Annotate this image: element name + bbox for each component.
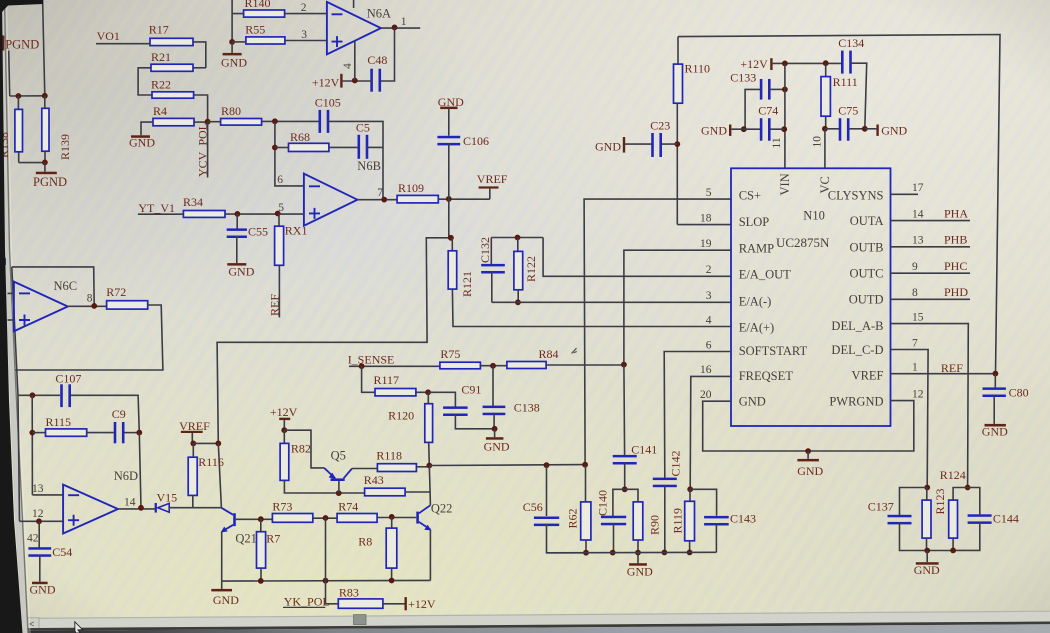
junction rail YK [323, 578, 329, 584]
power +12V at R83 [405, 597, 407, 610]
wire RAMP node down to C141 [623, 365, 626, 456]
junction N6C output [91, 303, 97, 309]
resistor R119 [689, 489, 691, 501]
svg-text:R124: R124 [940, 468, 966, 482]
wire R121 to pin4 [452, 289, 731, 326]
mouse cursor [75, 622, 83, 633]
wire R118 right [416, 466, 429, 468]
resistor R139b (right) [44, 96, 46, 163]
resistor R109 [397, 195, 438, 203]
svg-text:PHB: PHB [944, 233, 967, 247]
junction R117 tap [359, 363, 365, 369]
svg-text:R62: R62 [566, 508, 580, 528]
junction C54 top [36, 518, 42, 524]
wire R80 node down to R68 and pin6 [275, 121, 304, 186]
capacitor C9 [114, 422, 117, 443]
wire V15 to riser [169, 507, 221, 509]
svg-text:3: 3 [706, 290, 712, 302]
svg-text:E/A(+): E/A(+) [739, 320, 775, 334]
wire R110 vertical [676, 103, 678, 225]
wire C106 to R109 node [448, 143, 450, 199]
transistor Q22 [416, 512, 419, 524]
svg-text:C144: C144 [993, 512, 1019, 526]
capacitor C140 [613, 489, 625, 516]
svg-text:R43: R43 [364, 473, 384, 487]
panel icon 1 [1, 258, 6, 265]
svg-text:I_SENSE: I_SENSE [348, 352, 395, 366]
junction N6D output [138, 505, 144, 511]
svg-text:GND: GND [797, 464, 823, 478]
wire Q21 base [236, 518, 273, 520]
svg-text:N6C: N6C [54, 279, 78, 293]
wire C91 bottom to C138 node [455, 414, 494, 429]
svg-text:R123: R123 [933, 488, 947, 514]
wire C134 right down [850, 63, 867, 129]
capacitor C55 [236, 214, 238, 229]
svg-text:PHC: PHC [944, 259, 967, 273]
junction R115 left [29, 430, 35, 436]
capacitor C133 [760, 79, 763, 100]
wire C133 left leg [745, 89, 761, 129]
wire C142 bottom [664, 485, 666, 553]
resistor R111 [825, 63, 827, 129]
svg-text:R117: R117 [374, 373, 400, 387]
wire C141 bottom [624, 462, 626, 489]
power port PGND top [2, 36, 4, 51]
wire R80 to C105 [262, 120, 321, 122]
svg-text:R83: R83 [339, 586, 359, 600]
ground GND filter rail [637, 553, 639, 564]
junction rail R8 [389, 578, 395, 584]
junction RX1 top [275, 211, 281, 217]
junction C138 bottom [492, 426, 498, 432]
capacitor C105 [319, 110, 322, 133]
ground GND below IC [807, 451, 809, 459]
svg-text:GND: GND [914, 563, 940, 577]
resistor R83 [338, 599, 383, 608]
wire C132 top rail [491, 237, 543, 239]
junction rail R119 [687, 550, 693, 556]
resistor R73 [272, 514, 312, 523]
svg-text:REF: REF [267, 294, 281, 316]
svg-text:R72: R72 [106, 285, 126, 299]
junction C138 top [490, 363, 496, 369]
capacitor C143 [690, 489, 716, 515]
wire pin15 DEL_A-B route [891, 324, 969, 488]
wire Q21 emitter down [221, 532, 223, 581]
svg-text:C75: C75 [838, 104, 858, 118]
resistor R17 [150, 38, 193, 45]
svg-text:14: 14 [124, 496, 136, 508]
wire sense rail [429, 464, 585, 467]
left panel strip [2, 0, 29, 633]
svg-text:C74: C74 [758, 104, 778, 118]
capacitor C91 [428, 392, 455, 407]
svg-text:YK_POL: YK_POL [284, 594, 330, 608]
wire R43 right to Q22 riser [405, 491, 430, 493]
svg-text:R17: R17 [149, 22, 169, 36]
svg-text:SLOP: SLOP [739, 215, 770, 229]
svg-text:RX1: RX1 [285, 223, 308, 237]
junction Q21 base node [258, 516, 264, 522]
wire R7 bottom [260, 568, 262, 581]
svg-text:R68: R68 [290, 130, 310, 144]
wire pin14 OUTA [891, 220, 971, 222]
wire R55 to pin3 [285, 40, 327, 42]
capacitor C54 [38, 521, 40, 547]
svg-text:17: 17 [912, 182, 924, 194]
wire Q5 collector to R118 [352, 468, 377, 470]
svg-text:9: 9 [912, 261, 918, 273]
wire top stub to R140 [232, 0, 244, 42]
wire pin8 OUTD [891, 298, 971, 300]
wire R82 bottom to base rail [284, 480, 364, 493]
svg-text:12: 12 [912, 388, 924, 400]
power +12V at N6A [340, 74, 342, 88]
capacitor C137 [900, 488, 928, 516]
resistor R123 [926, 488, 928, 501]
resistor R121 [451, 238, 453, 251]
wire R17 right down to R21 [193, 42, 206, 68]
svg-text:PGND: PGND [33, 175, 67, 189]
wire C144 bottom [953, 522, 980, 551]
junction rail C140 [610, 550, 616, 556]
svg-text:C48: C48 [367, 53, 387, 67]
svg-text:1: 1 [401, 16, 407, 28]
capacitor C134 [841, 51, 844, 74]
svg-text:C9: C9 [112, 407, 126, 421]
junction R119 top [687, 486, 693, 492]
svg-text:8: 8 [87, 292, 93, 304]
svg-text:C143: C143 [730, 511, 756, 525]
wire top loop [678, 35, 1000, 374]
wire R68 to C5 [329, 146, 359, 148]
svg-text:PGND: PGND [5, 38, 39, 52]
wire pin13 OUTB [891, 246, 971, 248]
svg-text:N6B: N6B [357, 159, 381, 173]
wire C140 bottom [613, 523, 615, 553]
wire pin9 OUTC [891, 272, 971, 274]
resistor R21 [151, 64, 193, 71]
svg-text:R119: R119 [671, 508, 685, 534]
panel icon 2 [1, 290, 6, 297]
junction R121 top [448, 235, 454, 241]
wire R123-R124 rail [927, 550, 953, 552]
ground GND left of C74 [729, 125, 731, 136]
ground GND at C80 [993, 395, 995, 424]
junction IC ground [805, 448, 811, 454]
resistor R74 [337, 514, 377, 523]
wire R120 bottom [428, 442, 431, 465]
junction R139a top [16, 93, 22, 99]
wire top rail to pin2 [543, 238, 731, 277]
junction N6B output [381, 197, 387, 203]
svg-text:R111: R111 [833, 75, 858, 89]
svg-text:R115: R115 [46, 415, 72, 429]
svg-text:OUTC: OUTC [849, 266, 883, 280]
junction C55 top [235, 211, 241, 217]
wire riser to Q21 collector [218, 443, 221, 507]
svg-text:C23: C23 [650, 119, 670, 133]
svg-text:GND: GND [739, 394, 766, 408]
wire bottom rail to pin3 [492, 301, 731, 303]
resistor R122 [517, 238, 519, 252]
svg-text:6: 6 [706, 339, 712, 351]
wire R117 to R120 node [416, 391, 428, 393]
wire R119 bottom [689, 541, 691, 553]
wire emitter rail [222, 579, 431, 582]
wire +12V to C134 [773, 62, 844, 64]
capacitor C74 [731, 128, 784, 130]
wire C137 bottom [900, 522, 928, 551]
wire R72 right down-left box [15, 305, 163, 370]
wire C56 bottom [547, 524, 587, 553]
resistor R75 [440, 362, 481, 369]
wire R124 bottom [952, 538, 954, 550]
svg-text:C137: C137 [868, 500, 894, 514]
transistor Q21 [233, 513, 236, 526]
wire pin17 stub [891, 193, 919, 195]
junction +12V a [782, 61, 788, 67]
svg-text:GND: GND [30, 583, 56, 597]
svg-text:R82: R82 [291, 441, 311, 455]
wire N6C feedback loop [12, 267, 94, 306]
svg-text:FREQSET: FREQSET [739, 369, 794, 383]
svg-text:2: 2 [706, 264, 712, 276]
svg-text:RAMP: RAMP [739, 242, 774, 256]
panel icon 3 [2, 318, 7, 324]
wire I_SENSE to R75 [349, 365, 440, 367]
resistor R80 [221, 119, 262, 126]
svg-text:12: 12 [32, 508, 44, 520]
svg-text:11: 11 [771, 137, 783, 148]
svg-text:14: 14 [912, 208, 924, 220]
bezel top-left wedge [0, 0, 43, 12]
junction R120 top [425, 389, 431, 395]
svg-text:VIN: VIN [778, 173, 792, 195]
op-amp N6D [63, 485, 118, 534]
svg-text:R75: R75 [440, 347, 460, 361]
ground PGND bottom [36, 172, 57, 175]
svg-text:20: 20 [700, 389, 712, 401]
junction RAMP node [621, 362, 627, 368]
wire R75 to R84 [480, 365, 507, 367]
wire C48 to +12V [343, 80, 372, 82]
svg-text:E/A(-): E/A(-) [739, 294, 772, 308]
wire pin19 RAMP route [624, 250, 731, 364]
svg-text:10: 10 [812, 136, 824, 148]
svg-text:R4: R4 [153, 104, 167, 118]
svg-text:N6D: N6D [114, 469, 138, 483]
svg-text:R84: R84 [539, 347, 559, 361]
capacitor C132 [490, 238, 492, 265]
svg-text:SOFTSTART: SOFTSTART [739, 344, 808, 358]
svg-text:R140: R140 [245, 0, 271, 10]
wire C54 to GND [39, 555, 41, 582]
svg-text:VO1: VO1 [97, 29, 120, 43]
svg-text:C138: C138 [514, 400, 540, 414]
wire pin10 riser [824, 129, 826, 169]
svg-text:OUTA: OUTA [850, 214, 884, 228]
svg-text:R55: R55 [245, 22, 265, 36]
svg-text:UC2875N: UC2875N [776, 235, 830, 250]
junction YCV node [205, 119, 211, 125]
wire top vertical into R139 node [43, 0, 45, 96]
junction C140-R90 node [622, 486, 628, 492]
svg-text:+12V: +12V [408, 597, 436, 611]
wire pin16 FREQSET route [690, 376, 731, 489]
wire R139 bottom rail [19, 162, 45, 164]
capacitor C48 [370, 69, 373, 92]
wire pin5 CS+ route [584, 199, 731, 465]
wire R21 right [193, 67, 206, 69]
resistor R115 [32, 432, 45, 434]
svg-text:OUTB: OUTB [849, 240, 883, 254]
wire R116 bottom [192, 495, 194, 507]
svg-text:Q21: Q21 [235, 531, 257, 545]
transistor Q5 [331, 478, 345, 481]
junction R109 right [446, 196, 452, 202]
wire pin11 riser [784, 63, 786, 168]
op-amp N6C [14, 282, 68, 332]
svg-text:7: 7 [912, 337, 918, 349]
junction R55 left [229, 39, 235, 45]
wire N6D output [118, 508, 155, 510]
junction R139 bottom [42, 160, 48, 166]
svg-text:C140: C140 [596, 490, 610, 516]
capacitor C141 [613, 455, 637, 458]
resistor R72 [107, 301, 148, 309]
junction R68 left [272, 145, 278, 151]
svg-text:+12V: +12V [270, 405, 298, 419]
wire R123 bottom [926, 538, 928, 550]
capacitor C138 [492, 366, 494, 406]
ground GND bottom right [926, 551, 928, 563]
svg-text:PWRGND: PWRGND [829, 394, 883, 408]
svg-text:1: 1 [912, 362, 918, 374]
svg-text:2: 2 [301, 2, 307, 14]
svg-text:GND: GND [484, 439, 510, 453]
svg-text:OUTD: OUTD [849, 293, 884, 307]
IC U-N10 UC2875N box [731, 168, 891, 426]
bezel left wedge [0, 0, 23, 633]
junction R122 bottom [515, 299, 521, 305]
resistor R43 [365, 488, 406, 496]
svg-text:C80: C80 [1009, 385, 1029, 399]
wire C138 bottom [493, 413, 495, 429]
svg-text:5: 5 [706, 187, 712, 199]
svg-text:R120: R120 [388, 408, 414, 422]
scrollbar thumb [354, 615, 367, 625]
svg-text:PHD: PHD [944, 285, 968, 299]
wire R22 right to node [194, 95, 208, 122]
svg-text:R34: R34 [183, 195, 203, 209]
resistor R68 [289, 143, 329, 151]
svg-text:R74: R74 [338, 499, 358, 513]
capacitor C5 [358, 135, 361, 159]
svg-text:8: 8 [912, 287, 918, 299]
resistor R116 [192, 443, 194, 457]
svg-text:R90: R90 [648, 515, 662, 535]
wire VREF riser down [217, 199, 451, 444]
junction rail R124 [950, 548, 956, 554]
resistor R55 [246, 37, 285, 44]
capacitor C23 [624, 143, 677, 145]
svg-text:GND: GND [595, 140, 621, 154]
svg-text:GND: GND [221, 56, 247, 70]
svg-text:4: 4 [706, 314, 712, 326]
svg-text:6: 6 [277, 174, 283, 186]
wire pin4 stub [354, 41, 356, 81]
svg-text:+12V: +12V [312, 76, 340, 90]
junction C74 right [781, 126, 787, 132]
resistor R4 [153, 118, 194, 125]
svg-text:PHA: PHA [944, 206, 968, 220]
junction N6A output [392, 25, 398, 31]
svg-text:C142: C142 [669, 450, 683, 476]
scrollbar band [24, 611, 1050, 630]
svg-text:R80: R80 [221, 104, 241, 118]
speck mark [572, 348, 577, 353]
svg-text:R21: R21 [151, 50, 171, 64]
wire Q22 collector riser [429, 466, 430, 506]
svg-text:C141: C141 [631, 442, 657, 456]
resistor R120 [427, 392, 429, 403]
wire +12V to Q5 emitter path [284, 430, 324, 468]
wire N6C output [68, 305, 107, 307]
svg-text:GND: GND [627, 564, 653, 578]
wire R55 left [232, 41, 246, 43]
junction rail R62 [583, 550, 589, 556]
wire YCV_POL stub [207, 122, 209, 178]
svg-text:13: 13 [32, 483, 44, 495]
svg-text:V15: V15 [157, 491, 178, 505]
svg-text:7: 7 [377, 187, 383, 199]
ground GND below C138 [494, 429, 496, 437]
svg-text:DEL_A-B: DEL_A-B [831, 319, 883, 333]
svg-text:GND: GND [881, 124, 907, 138]
wire pin12 PWRGND route [703, 401, 914, 451]
wire YT_V1 to R34 [138, 213, 184, 215]
window bottom border [0, 623, 1050, 630]
resistor R90 [625, 489, 638, 502]
junction VREF riser [215, 441, 221, 447]
wire pin12 to N6D [20, 520, 64, 522]
wire pin1 VREF to REF [891, 373, 996, 375]
wire R8 bottom [391, 568, 393, 581]
svg-text:42: 42 [27, 532, 39, 544]
svg-text:Q22: Q22 [431, 502, 453, 516]
resistor R140 [244, 10, 285, 17]
resistor R8 [391, 517, 393, 528]
junction R124 top node [965, 485, 971, 491]
junction C23 right [674, 141, 680, 147]
wire pin13 to N6D [32, 494, 63, 496]
wire RX1 to REF [278, 265, 280, 317]
resistor R62 [585, 465, 587, 502]
svg-text:4: 4 [342, 63, 354, 69]
junction rail C142 [662, 550, 668, 556]
wire R73 to R74 [313, 517, 337, 519]
svg-text:VREF: VREF [179, 419, 210, 433]
ground GND at R4 [131, 135, 150, 138]
junction C74 left [741, 126, 747, 132]
svg-text:E/A_OUT: E/A_OUT [739, 268, 791, 282]
sheet left border [5, 0, 29, 633]
wire pin6 SOFTSTART route [664, 352, 731, 479]
wire R140 to pin2 [285, 13, 327, 15]
svg-text:16: 16 [700, 364, 712, 376]
